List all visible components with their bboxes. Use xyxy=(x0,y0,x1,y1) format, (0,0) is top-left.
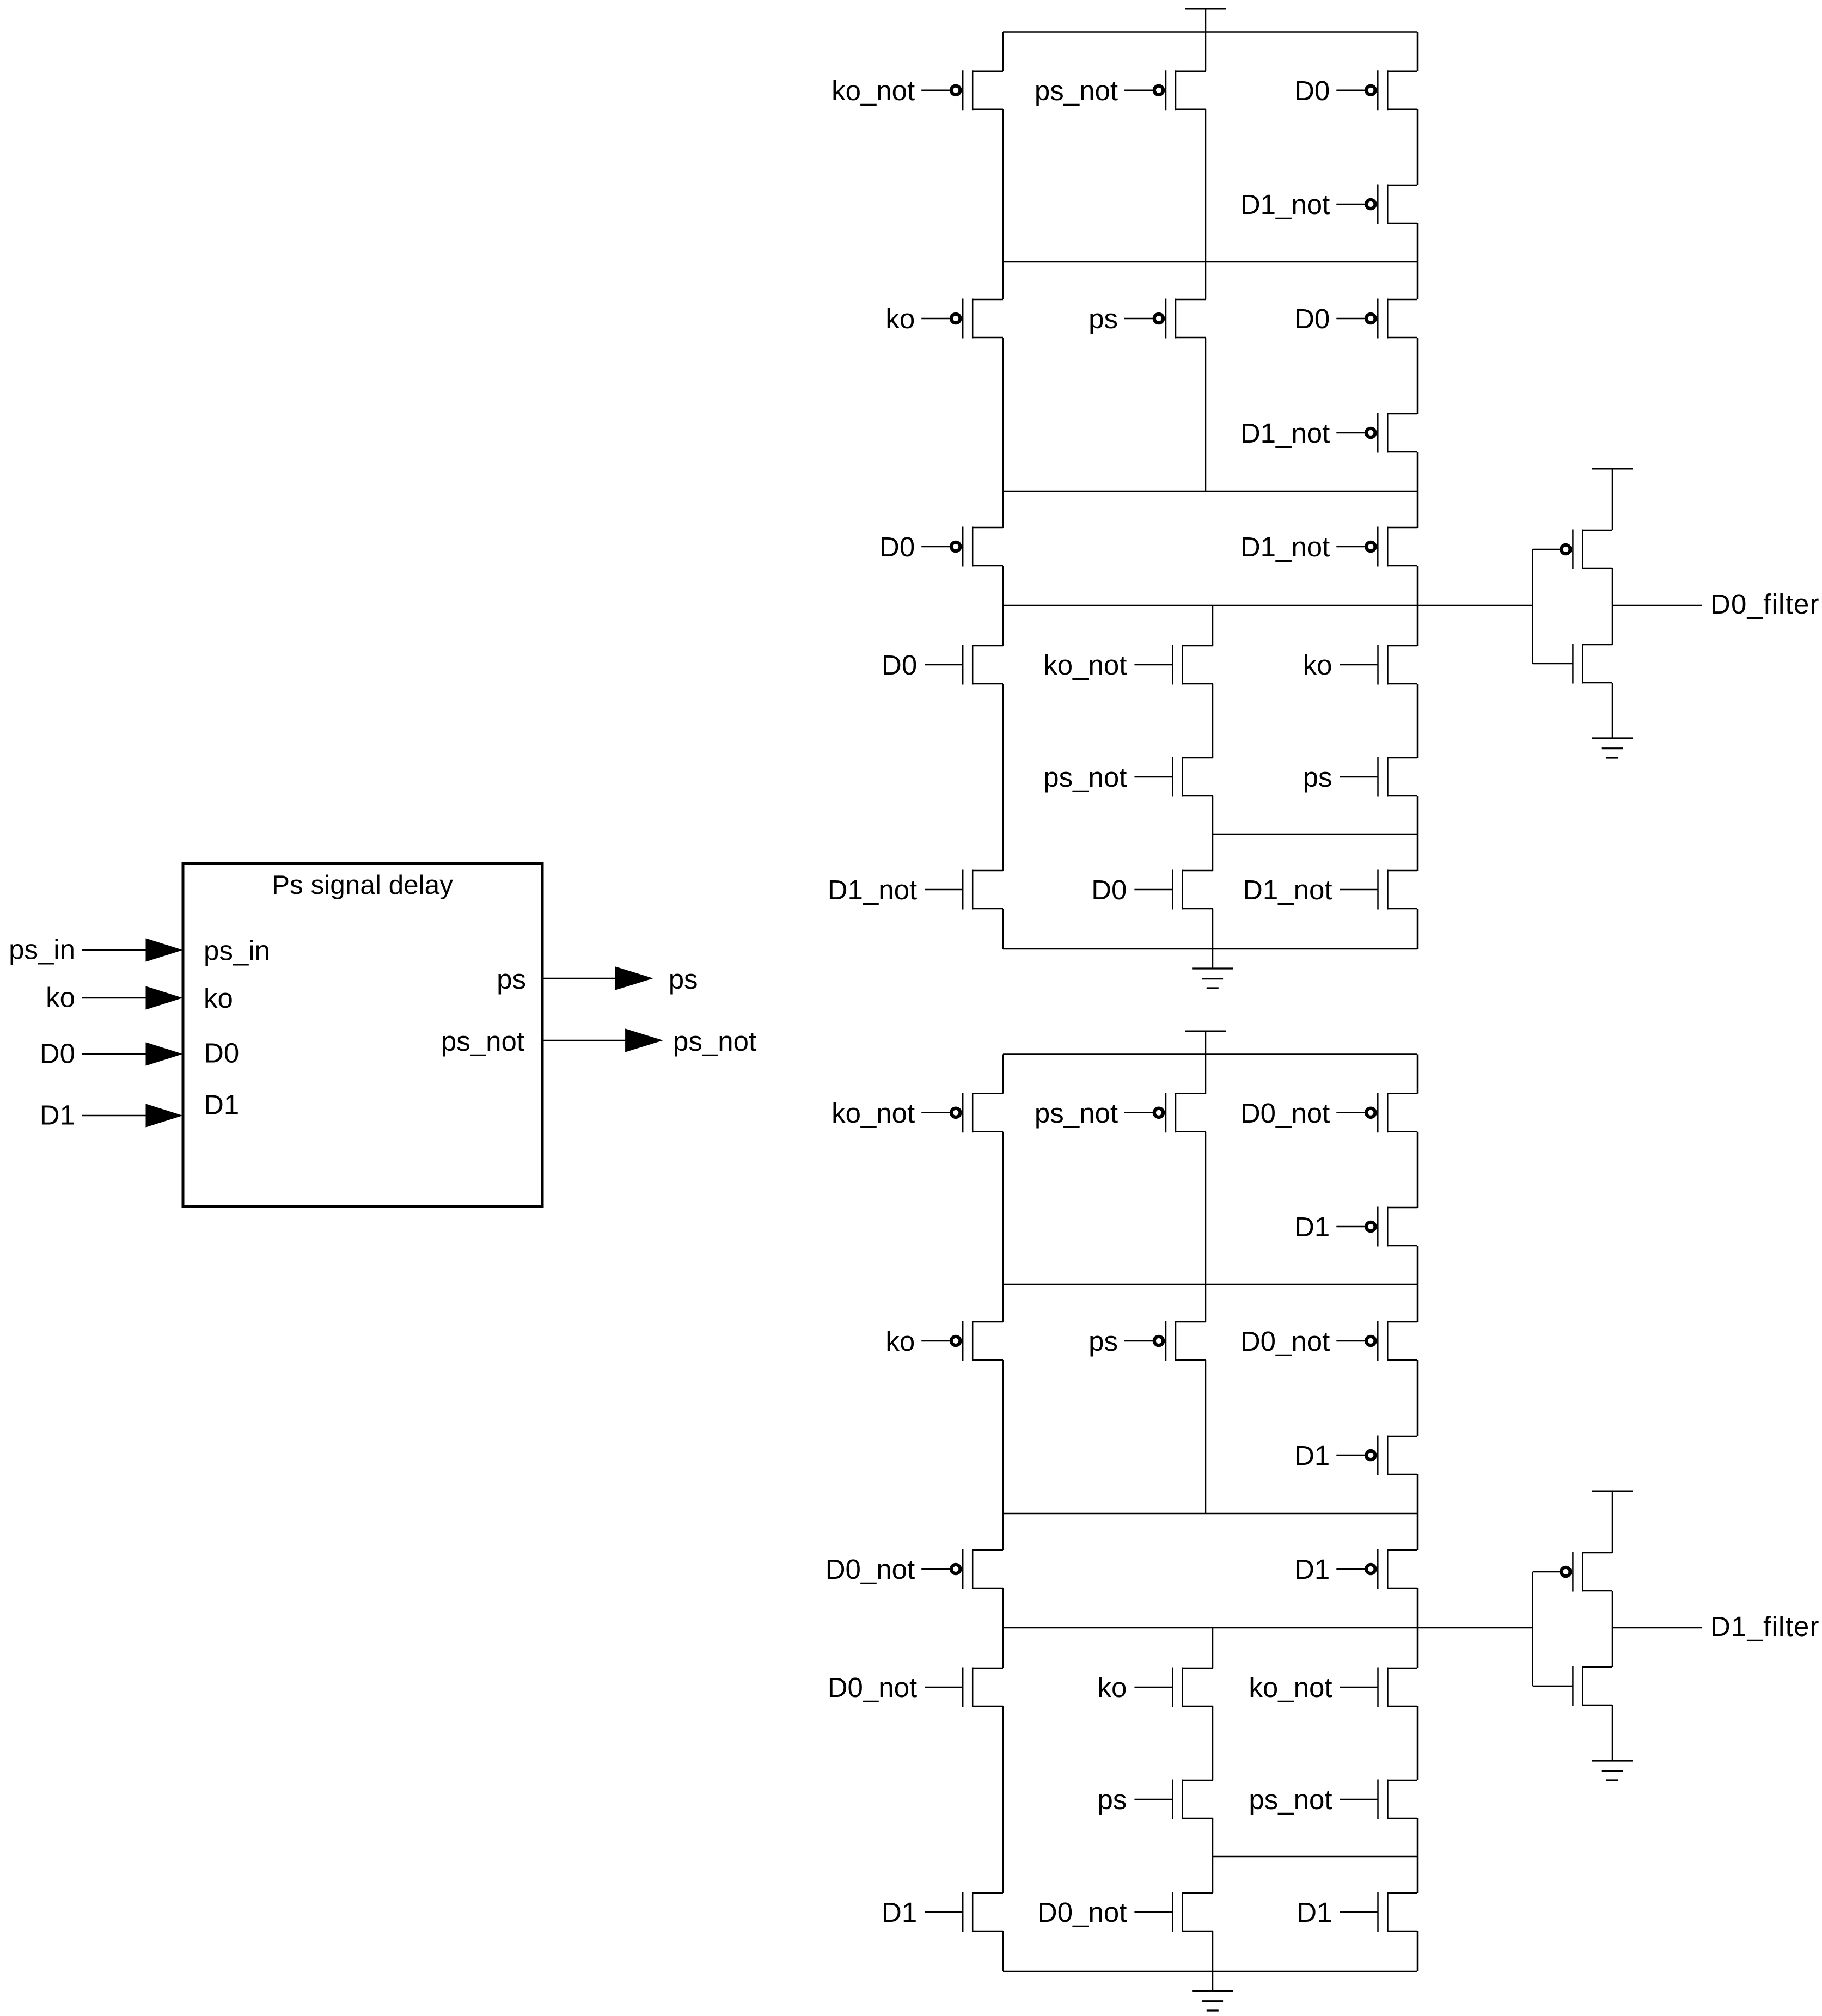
svg-text:ps_not: ps_not xyxy=(441,1026,524,1057)
svg-text:D1: D1 xyxy=(1294,1554,1330,1585)
svg-text:D0: D0 xyxy=(1294,75,1330,106)
svg-text:ko_not: ko_not xyxy=(831,75,915,106)
svg-text:ko: ko xyxy=(1303,649,1332,681)
svg-text:ps: ps xyxy=(669,964,698,995)
svg-text:D0_not: D0_not xyxy=(1240,1098,1330,1129)
svg-text:D1_not: D1_not xyxy=(1240,189,1330,220)
svg-text:D1_not: D1_not xyxy=(1240,418,1330,449)
svg-text:ps_not: ps_not xyxy=(1035,1098,1118,1129)
svg-text:ko: ko xyxy=(1098,1672,1127,1703)
svg-text:D1_not: D1_not xyxy=(1243,874,1332,905)
svg-text:D1_filter: D1_filter xyxy=(1710,1611,1820,1642)
svg-text:D1_not: D1_not xyxy=(828,874,917,905)
svg-text:ko_not: ko_not xyxy=(831,1098,915,1129)
svg-text:D0: D0 xyxy=(204,1038,239,1069)
svg-text:D1_not: D1_not xyxy=(1240,531,1330,562)
svg-text:ps: ps xyxy=(1303,762,1332,793)
svg-text:ps_in: ps_in xyxy=(9,934,75,965)
svg-text:D1: D1 xyxy=(1297,1897,1332,1928)
svg-text:ps_not: ps_not xyxy=(1249,1784,1332,1815)
svg-text:D0_not: D0_not xyxy=(1240,1326,1330,1357)
svg-text:ps: ps xyxy=(1089,1326,1118,1357)
svg-text:D0_not: D0_not xyxy=(1037,1897,1127,1928)
svg-text:ps: ps xyxy=(1098,1784,1127,1815)
svg-text:D1: D1 xyxy=(40,1100,75,1131)
svg-text:D1: D1 xyxy=(882,1897,917,1928)
svg-text:D0: D0 xyxy=(1091,874,1127,905)
svg-text:ko: ko xyxy=(204,983,233,1014)
svg-text:ps_not: ps_not xyxy=(1043,762,1127,793)
svg-text:ps: ps xyxy=(1089,303,1118,334)
svg-text:D0_filter: D0_filter xyxy=(1710,589,1820,620)
svg-text:D0: D0 xyxy=(879,531,915,562)
svg-text:Ps signal delay: Ps signal delay xyxy=(272,870,453,900)
svg-text:D0_not: D0_not xyxy=(826,1554,915,1585)
svg-text:ko_not: ko_not xyxy=(1249,1672,1332,1703)
svg-text:D0: D0 xyxy=(882,649,917,681)
svg-text:ko: ko xyxy=(46,982,75,1013)
svg-text:ps_in: ps_in xyxy=(204,935,270,966)
svg-text:D1: D1 xyxy=(1294,1440,1330,1471)
svg-text:D0_not: D0_not xyxy=(828,1672,917,1703)
svg-text:ko: ko xyxy=(885,1326,915,1357)
svg-text:D1: D1 xyxy=(1294,1211,1330,1242)
svg-text:D1: D1 xyxy=(204,1089,239,1120)
svg-text:ps_not: ps_not xyxy=(1035,75,1118,106)
svg-text:ko: ko xyxy=(885,303,915,334)
svg-text:ps_not: ps_not xyxy=(673,1026,756,1057)
svg-text:ko_not: ko_not xyxy=(1043,649,1127,681)
svg-text:D0: D0 xyxy=(40,1038,75,1069)
svg-text:ps: ps xyxy=(497,964,526,995)
svg-text:D0: D0 xyxy=(1294,303,1330,334)
